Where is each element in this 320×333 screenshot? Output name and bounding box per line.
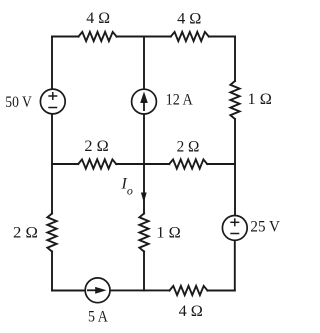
resistor R 2ohm mid-left bbox=[78, 159, 116, 168]
resistor R 2ohm mid-right bbox=[169, 159, 207, 168]
wire bottom-middle segment bbox=[111, 289, 170, 291]
wire right middle segment bbox=[234, 119, 236, 215]
resistor R 1ohm middle-vertical bbox=[139, 214, 148, 252]
wire right upper segment bbox=[234, 37, 236, 82]
wire middle upper (top to 12A) bbox=[143, 37, 145, 89]
resistor R 1ohm right-vertical bbox=[230, 81, 239, 119]
wire mid row center segment bbox=[116, 163, 169, 165]
wire left middle (50V to 2ohm) bbox=[51, 115, 53, 214]
wire bottom-right segment bbox=[208, 290, 235, 292]
voltage source V 25V circle bbox=[222, 216, 247, 241]
resistor R 4ohm bottom bbox=[170, 286, 208, 295]
svg-text:4 Ω: 4 Ω bbox=[86, 10, 110, 27]
svg-text:1 Ω: 1 Ω bbox=[156, 225, 181, 242]
svg-text:2 Ω: 2 Ω bbox=[84, 138, 108, 155]
voltage source V25 plus sign bbox=[230, 218, 239, 226]
wire bottom-left segment bbox=[52, 290, 85, 292]
wire left upper (to 50V source) bbox=[51, 37, 53, 89]
svg-text:Io: Io bbox=[121, 175, 133, 197]
svg-text:2 Ω: 2 Ω bbox=[13, 225, 38, 242]
current source I 12A circle bbox=[132, 89, 157, 114]
wire mid row right segment bbox=[207, 163, 235, 165]
current Io arrow on middle wire bbox=[141, 193, 147, 203]
wire middle lower segment bbox=[143, 252, 145, 291]
wire top-right segment bbox=[209, 36, 235, 38]
svg-text:25 V: 25 V bbox=[250, 219, 280, 236]
wire middle Io segment bbox=[143, 164, 145, 214]
svg-text:50 V: 50 V bbox=[5, 94, 32, 111]
current source I5 arrow bbox=[87, 287, 107, 294]
resistor R 2ohm left-vertical bbox=[47, 214, 56, 252]
wire right lower segment bbox=[234, 241, 236, 291]
svg-text:1 Ω: 1 Ω bbox=[248, 91, 273, 108]
svg-text:5 A: 5 A bbox=[88, 309, 108, 326]
wire left lower segment bbox=[51, 252, 53, 291]
wire top-left segment bbox=[52, 36, 79, 38]
voltage source V50 plus sign bbox=[48, 92, 57, 100]
current source I 5A circle bbox=[85, 278, 110, 303]
current source I12 arrow bbox=[140, 92, 148, 112]
resistor R 4ohm top-right bbox=[171, 32, 209, 41]
svg-text:2 Ω: 2 Ω bbox=[177, 139, 200, 156]
resistor R 4ohm top-left bbox=[79, 32, 117, 41]
voltage source V50 minus sign bbox=[48, 107, 57, 109]
voltage source V25 minus sign bbox=[230, 233, 239, 235]
wire mid row left segment bbox=[52, 163, 78, 165]
svg-text:4 Ω: 4 Ω bbox=[179, 303, 203, 320]
voltage source V 50V circle bbox=[40, 89, 65, 114]
wire middle (12A to mid row) bbox=[143, 115, 145, 164]
svg-text:4 Ω: 4 Ω bbox=[177, 11, 201, 28]
wire top-middle segment bbox=[117, 36, 171, 38]
svg-text:12 A: 12 A bbox=[166, 92, 194, 109]
